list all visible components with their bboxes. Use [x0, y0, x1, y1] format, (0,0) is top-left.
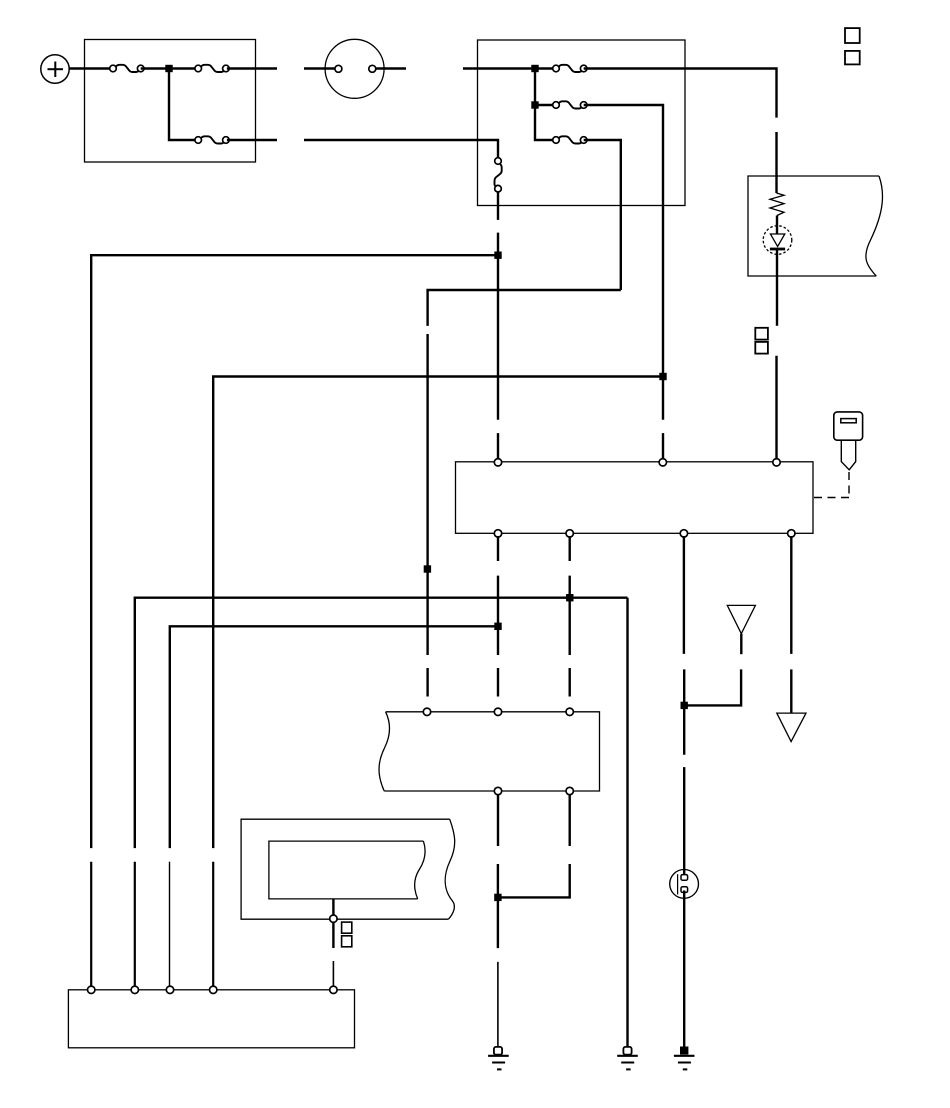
wire x498 mid — [497, 576, 499, 655]
junction node y598 — [566, 594, 573, 601]
battery positive terminal — [41, 55, 69, 83]
wire fuse B2 to corner down — [584, 105, 663, 420]
wire resistor to lamp — [776, 216, 778, 235]
wire x134 lower segment — [134, 862, 136, 987]
wire connector to ground 3 — [683, 891, 685, 1047]
bottom connector pin 5 — [330, 986, 337, 993]
head unit box outline — [384, 712, 599, 791]
fuse B3 — [553, 136, 587, 143]
junction node y626 — [494, 623, 501, 630]
wire below vertical fuse — [497, 192, 499, 220]
wire x498 dash below fuse box B — [497, 233, 499, 420]
bottom connector pin 4 — [210, 986, 217, 993]
wire lamp down out of box — [776, 249, 778, 326]
in-line connector inner bar — [677, 874, 679, 894]
wire antenna dash corner to junction — [684, 669, 741, 705]
wire head unit pin down x498 — [497, 794, 499, 846]
top right label square 2 — [845, 51, 860, 65]
wire x569 dash corner to junction — [498, 864, 570, 897]
wire x498 segment to control unit — [497, 433, 499, 458]
junction node x498 y897 — [494, 894, 501, 901]
bottom connector pin 2 — [131, 986, 138, 993]
bottom connector pin 3 — [166, 986, 173, 993]
fuse A3 — [195, 136, 229, 143]
control unit bottom pin 1 — [494, 530, 501, 537]
ground 1 terminal — [494, 1047, 502, 1055]
head unit top pin 3 — [566, 708, 573, 715]
radio connector label square 2 — [342, 936, 352, 947]
wire into fuse box B — [463, 67, 556, 69]
fuse box B — [478, 40, 686, 206]
lamp LED circle — [763, 226, 792, 255]
wire junction B1 down — [535, 69, 556, 141]
control unit top pin 3 — [773, 459, 780, 466]
wire into vertical fuse — [304, 140, 498, 157]
dashed key link vertical — [848, 472, 850, 498]
ignition switch circle — [325, 39, 384, 98]
top right label square 1 — [845, 28, 860, 43]
ground 3 terminal filled — [680, 1047, 688, 1055]
resistor — [770, 193, 784, 216]
wire out of ignition switch — [376, 67, 406, 69]
fuse A1 — [110, 65, 144, 72]
wire horizontal y626 to left down — [170, 626, 498, 848]
illumination lamp box outline — [748, 176, 879, 276]
wire x427 long segment — [426, 334, 428, 655]
LED triangle — [770, 234, 784, 247]
wire x627 down to ground — [626, 598, 628, 1047]
LED cathode bar — [770, 248, 785, 251]
wire fuse A1 to fuse A2 — [141, 67, 199, 69]
control unit top pin 1 — [494, 459, 501, 466]
head unit top pin 2 — [494, 708, 501, 715]
in-line connector circle — [670, 870, 699, 899]
wire junction down to row A3 — [169, 69, 198, 141]
wire x213 lower segment — [212, 862, 214, 987]
wire x569 dash to head unit — [569, 668, 571, 697]
fuse B2 — [553, 101, 587, 108]
control unit bottom pin 4 — [788, 530, 795, 537]
wire horizontal y598 to left down — [135, 598, 628, 848]
wire ctrl pin4 down — [790, 536, 792, 654]
wire horizontal y290 — [428, 290, 621, 326]
key slot — [841, 419, 856, 423]
ground 3 bar 1 — [674, 1055, 695, 1057]
wire x498 dash to head unit — [497, 668, 499, 697]
radio inner box outline — [269, 841, 424, 899]
junction B1 — [531, 65, 538, 72]
ground 2 bar 1 — [617, 1055, 638, 1057]
wire x427 dash to head unit — [426, 668, 428, 697]
ground 1 bar 2 — [492, 1062, 505, 1064]
key shaft — [841, 440, 855, 470]
wire top rail corner segment down to lamp box — [775, 132, 777, 193]
radio box pin — [330, 915, 337, 922]
in-line connector terminal top — [681, 875, 688, 881]
ground 2 bar 2 — [621, 1062, 634, 1064]
control unit top pin 2 — [659, 459, 666, 466]
ground 1 bar 1 — [488, 1055, 509, 1057]
wire ctrl pin3 down — [683, 536, 685, 654]
radio outer box outline — [241, 819, 450, 919]
ground 3 bar 3 — [683, 1068, 688, 1070]
wire ctrl pin2 down — [569, 536, 571, 561]
wire fuse B3 to corner down — [584, 140, 621, 290]
wire radio pin down — [332, 922, 334, 948]
in-line connector terminal bottom — [681, 887, 688, 893]
fuse A2 — [195, 65, 229, 72]
control unit box — [456, 462, 814, 534]
wire x498 thin to ground — [497, 962, 499, 1047]
fuse B1 — [553, 65, 587, 72]
wire horizontal y376 to left down — [213, 377, 663, 849]
control unit bottom pin 2 — [566, 530, 573, 537]
illumination lamp box torn right edge — [866, 176, 883, 276]
ground 1 bar 3 — [497, 1068, 502, 1070]
head unit torn left edge — [379, 712, 389, 791]
wire ctrl pin1 down — [497, 536, 499, 561]
wire junction B2 to fuse B2 — [535, 104, 556, 106]
wire x791 dash to arrow — [790, 669, 792, 714]
wire lamp to control unit pin — [775, 356, 777, 459]
radio outer box torn right edge — [445, 819, 455, 919]
wire x684 junction segment — [683, 669, 685, 754]
wire radio inner to outer pin — [332, 899, 334, 915]
junction node x684 y705 — [681, 702, 688, 709]
wire fuse A3 out of box — [227, 139, 277, 141]
head unit top pin 1 — [423, 708, 430, 715]
radio inner box torn right edge — [415, 841, 425, 899]
wire x169 lower thin segment — [169, 862, 171, 987]
wire fuse B1 right to corner and down — [584, 69, 777, 118]
dashed key link horizontal — [813, 497, 849, 499]
fuse box A — [85, 40, 256, 163]
wire x569 mid — [569, 576, 571, 655]
vertical fuse in box B — [495, 158, 502, 192]
arrow triangle down — [777, 713, 806, 742]
connector label square 2 (lamp wire) — [755, 342, 768, 354]
bottom connector pin 1 — [88, 986, 95, 993]
wire into ignition switch — [304, 67, 338, 69]
wire radio thin dash to connector — [332, 961, 334, 987]
wire x663 segment to control unit — [662, 433, 664, 458]
wire x684 dash into connector — [683, 767, 685, 875]
junction node y255 — [494, 252, 501, 259]
ground 2 terminal — [623, 1047, 631, 1055]
antenna triangle — [727, 605, 755, 633]
wire x91 lower segment — [90, 862, 92, 987]
ground 2 bar 3 — [626, 1068, 631, 1070]
control unit bottom pin 3 — [680, 530, 687, 537]
ignition switch terminal right — [369, 65, 376, 72]
head unit bottom pin 1 — [494, 787, 501, 794]
junction node x427 y569 — [424, 565, 431, 572]
key head — [834, 412, 863, 440]
bottom connector box — [68, 990, 354, 1048]
wire head unit pin down x569 — [569, 794, 571, 846]
junction node y376 — [659, 373, 666, 380]
ignition switch terminal left — [335, 65, 342, 72]
connector label square 1 (lamp wire) — [755, 328, 768, 340]
radio connector label square 1 — [342, 922, 352, 933]
wire x498 dash to junction — [497, 864, 499, 948]
junction B2 — [531, 101, 538, 108]
ground 3 bar 2 — [678, 1062, 691, 1064]
wire antenna down — [740, 634, 742, 655]
wire fuse A2 out of box — [227, 67, 277, 69]
wire horizontal y255 to left edge down — [91, 255, 498, 848]
junction fuse box A — [165, 65, 172, 72]
wire battery to fuse box A — [69, 67, 113, 69]
head unit bottom pin 2 — [566, 787, 573, 794]
